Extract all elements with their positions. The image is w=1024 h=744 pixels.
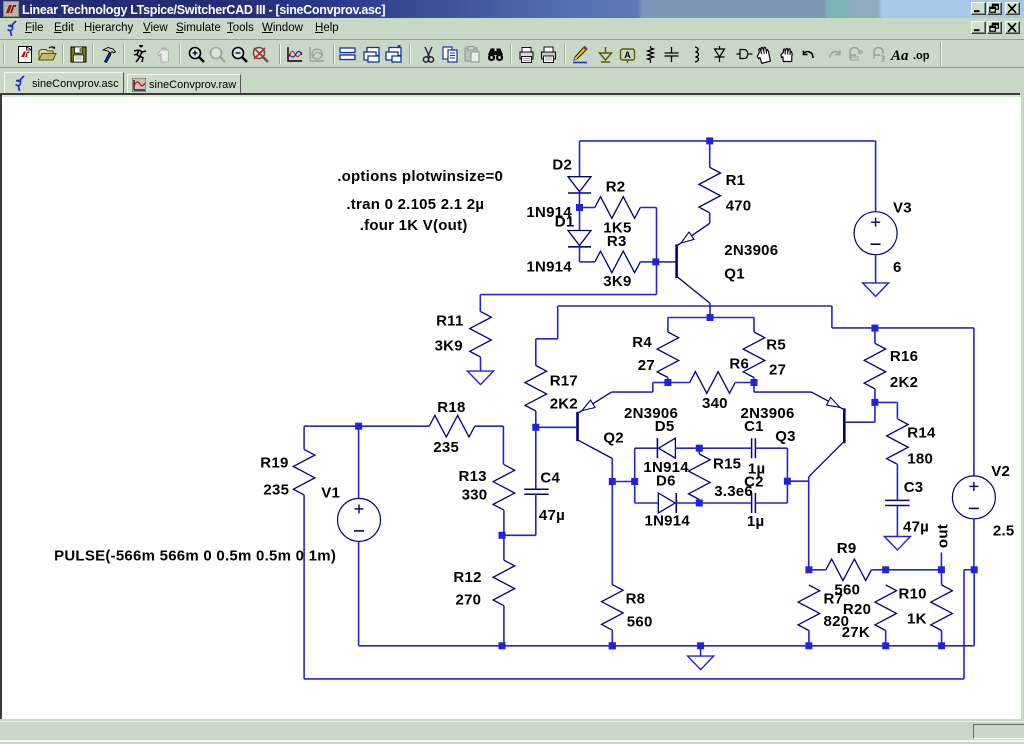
svg-text:2K2: 2K2 — [550, 396, 578, 413]
svg-text:R4: R4 — [632, 334, 652, 351]
svg-text:C3: C3 — [904, 479, 924, 496]
svg-text:R2: R2 — [606, 179, 626, 196]
svg-text:.four 1K V(out): .four 1K V(out) — [360, 217, 468, 234]
svg-text:R19: R19 — [260, 455, 288, 472]
svg-text:R13: R13 — [459, 468, 487, 485]
svg-text:R8: R8 — [626, 590, 646, 607]
svg-text:D5: D5 — [655, 418, 675, 435]
svg-text:180: 180 — [907, 451, 933, 468]
svg-text:470: 470 — [726, 198, 752, 215]
svg-text:D2: D2 — [552, 157, 572, 174]
svg-text:R11: R11 — [436, 313, 463, 330]
svg-text:Q3: Q3 — [775, 428, 796, 445]
svg-text:235: 235 — [433, 439, 459, 456]
svg-text:C1: C1 — [744, 418, 764, 435]
svg-text:1K: 1K — [907, 611, 927, 628]
svg-text:R18: R18 — [437, 399, 465, 416]
svg-text:2N3906: 2N3906 — [724, 242, 778, 259]
svg-text:235: 235 — [263, 481, 289, 498]
svg-text:C2: C2 — [744, 473, 764, 490]
svg-text:3K9: 3K9 — [435, 337, 463, 354]
svg-text:1N914: 1N914 — [645, 513, 691, 530]
svg-text:R17: R17 — [550, 372, 578, 389]
svg-text:R12: R12 — [453, 569, 481, 586]
svg-text:D1: D1 — [555, 213, 575, 230]
svg-text:27: 27 — [638, 357, 655, 374]
svg-text:2K2: 2K2 — [890, 374, 918, 391]
svg-text:27: 27 — [769, 361, 786, 378]
svg-text:.options plotwinsize=0: .options plotwinsize=0 — [337, 168, 503, 185]
svg-text:R15: R15 — [713, 456, 741, 473]
svg-text:2.5: 2.5 — [993, 522, 1015, 539]
svg-text:330: 330 — [462, 487, 488, 504]
svg-text:R5: R5 — [766, 337, 786, 354]
svg-text:R9: R9 — [837, 540, 857, 557]
svg-text:out: out — [935, 524, 952, 548]
svg-text:R6: R6 — [729, 356, 749, 373]
svg-text:27K: 27K — [842, 624, 870, 641]
svg-text:.tran 0 2.105 2.1 2µ: .tran 0 2.105 2.1 2µ — [346, 196, 484, 213]
svg-text:R3: R3 — [607, 233, 627, 250]
svg-text:340: 340 — [702, 395, 728, 412]
svg-text:Q2: Q2 — [603, 429, 624, 446]
svg-text:1N914: 1N914 — [526, 259, 572, 276]
svg-text:D6: D6 — [656, 473, 676, 490]
svg-text:47µ: 47µ — [539, 507, 565, 524]
svg-text:R16: R16 — [890, 348, 918, 365]
svg-text:3K9: 3K9 — [603, 273, 631, 290]
svg-text:R20: R20 — [843, 601, 871, 618]
svg-text:C4: C4 — [540, 470, 560, 487]
svg-text:R7: R7 — [824, 590, 844, 607]
svg-text:V2: V2 — [991, 463, 1010, 480]
svg-text:270: 270 — [456, 592, 482, 609]
svg-text:R14: R14 — [907, 425, 936, 442]
svg-text:560: 560 — [627, 614, 653, 631]
svg-text:1µ: 1µ — [747, 513, 765, 530]
svg-text:R1: R1 — [726, 172, 746, 189]
svg-text:R10: R10 — [899, 585, 927, 602]
svg-text:6: 6 — [893, 259, 902, 276]
svg-text:V3: V3 — [893, 200, 912, 217]
svg-text:PULSE(-566m 566m 0 0.5m 0.5m 0: PULSE(-566m 566m 0 0.5m 0.5m 0 1m) — [54, 547, 336, 564]
svg-text:47µ: 47µ — [903, 518, 929, 535]
svg-text:Q1: Q1 — [724, 265, 745, 282]
svg-text:V1: V1 — [321, 485, 340, 502]
